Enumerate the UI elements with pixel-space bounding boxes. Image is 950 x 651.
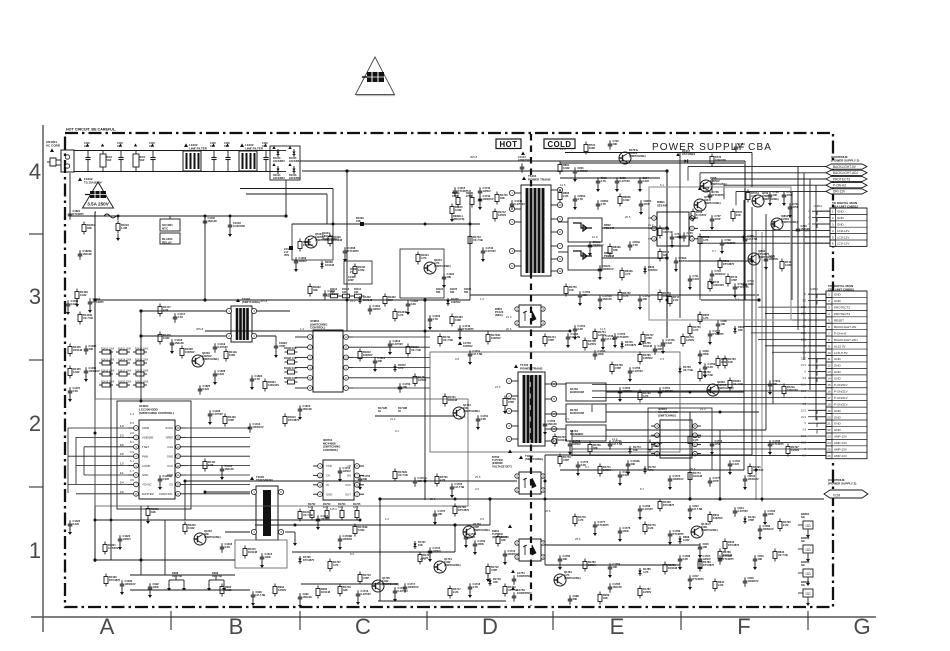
svg-text:1N4148: 1N4148	[248, 550, 258, 554]
svg-text:1/250V: 1/250V	[686, 338, 694, 342]
resistor R706	[692, 209, 694, 212]
junction	[544, 480, 547, 483]
capacitor C1013 below divider	[521, 151, 525, 155]
resistor R810b	[609, 244, 611, 247]
wire to CN8812 pin	[817, 210, 830, 212]
pin stub wire	[812, 210, 830, 212]
svg-text:1/250V: 1/250V	[123, 537, 131, 541]
junction	[94, 432, 97, 435]
svg-text:KTC3875: KTC3875	[598, 523, 610, 527]
wire vertical x700 cold	[699, 237, 701, 300]
resistor R1001	[135, 151, 137, 155]
capacitor C1766	[544, 420, 546, 424]
capacitor C1754	[574, 325, 576, 329]
svg-text:1N4148: 1N4148	[613, 585, 623, 589]
svg-text:100/50V: 100/50V	[303, 243, 313, 247]
svg-text:10K: 10K	[721, 322, 726, 326]
capacitor C1316	[221, 543, 223, 547]
junction	[424, 480, 427, 483]
resistor R1321	[104, 542, 106, 545]
rectifier block D803 (bottom)	[568, 246, 602, 270]
svg-text:1.4: 1.4	[130, 412, 134, 416]
svg-text:33K: 33K	[378, 359, 383, 363]
wire vertical x572 amp rail	[571, 430, 573, 456]
junction	[454, 498, 457, 501]
svg-text:10K: 10K	[447, 275, 452, 279]
wire to CN8801 pin	[572, 448, 826, 450]
wire to CN8812 pin	[700, 236, 830, 238]
wire: vertical x205	[204, 216, 206, 300]
svg-text:100/50V: 100/50V	[769, 257, 779, 261]
resistor R1812	[359, 349, 361, 352]
svg-text:GND: GND	[834, 357, 842, 361]
svg-text:2.2K: 2.2K	[648, 526, 654, 530]
svg-text:0.022: 0.022	[733, 462, 740, 466]
svg-text:33K: 33K	[363, 477, 368, 481]
bottom ruler tick	[426, 611, 428, 630]
svg-text:100/50V: 100/50V	[648, 268, 658, 272]
capacitor C1710	[394, 587, 396, 591]
svg-text:(R5ALTD): (R5ALTD)	[453, 218, 465, 221]
capacitor C1768	[569, 440, 571, 444]
junction	[345, 169, 348, 172]
warning triangle with fuse symbol	[356, 57, 395, 95]
resistor R1740	[496, 192, 498, 195]
transistor Q1802	[707, 384, 719, 396]
svg-text:20: 20	[827, 415, 831, 419]
capacitor C1702	[359, 475, 361, 479]
pin stub wire	[808, 325, 826, 327]
resistor grid R1410	[99, 362, 102, 364]
svg-text:R1412 100K: R1412 100K	[135, 347, 149, 350]
resistor R1813	[407, 344, 409, 347]
transistor Q707	[694, 199, 706, 211]
svg-text:C: C	[355, 614, 371, 639]
pin stub wire	[808, 454, 826, 456]
svg-text:4.7K: 4.7K	[398, 366, 404, 370]
resistor R1409	[224, 414, 226, 417]
capacitor C1102	[204, 217, 206, 221]
resistor R1750	[565, 284, 567, 287]
wire bus vertical 5	[791, 191, 793, 300]
pin stub wire	[812, 242, 830, 244]
resistor R1419	[225, 349, 227, 352]
resistor R1803	[729, 378, 731, 381]
svg-text:0.022/250: 0.022/250	[233, 224, 245, 228]
resistor R993	[221, 584, 223, 587]
svg-text:4.7K: 4.7K	[601, 202, 607, 206]
resistor R708	[699, 234, 701, 237]
svg-text:21: 21	[827, 422, 831, 426]
capacitor C1406	[85, 367, 87, 371]
svg-text:12.9: 12.9	[592, 235, 598, 239]
connector flag VCM	[824, 490, 868, 498]
svg-text:OUT: OUT	[345, 492, 351, 496]
svg-text:UZ-7.5B: UZ-7.5B	[455, 485, 465, 489]
wire from IC1001 pin right	[186, 474, 250, 476]
svg-text:1N4148: 1N4148	[448, 398, 458, 402]
capacitor C1742	[479, 195, 481, 199]
capacitor C1303	[429, 315, 431, 319]
svg-text:8.3: 8.3	[130, 440, 134, 444]
svg-text:2.2K: 2.2K	[481, 417, 487, 421]
wire from X1801 pin right	[353, 387, 430, 389]
resistor R813	[774, 549, 776, 552]
svg-text:AMP-13V: AMP-13V	[834, 448, 847, 452]
capacitor C1408	[209, 410, 211, 414]
junction	[140, 400, 143, 403]
svg-text:GND: GND	[167, 454, 173, 458]
rectifier block D1702 (mid)	[566, 383, 606, 401]
resistor R991	[274, 584, 276, 587]
svg-text:1/25: 1/25	[117, 145, 122, 148]
resistor R992	[317, 586, 319, 589]
junction	[294, 524, 297, 527]
wire bus vertical 9	[751, 207, 753, 455]
svg-text:BACKLIGHT-5V: BACKLIGHT-5V	[833, 165, 857, 169]
capacitor C1410	[249, 423, 251, 427]
resistor R1792	[689, 434, 691, 437]
wire: rectified + rail	[300, 160, 745, 162]
svg-text:GND: GND	[834, 370, 842, 374]
resistor R1774	[689, 470, 691, 473]
svg-text:1000/10V: 1000/10V	[483, 197, 494, 201]
capacitor C705	[744, 235, 746, 239]
svg-text:1000/10V: 1000/10V	[89, 369, 100, 373]
svg-text:0.47/50V: 0.47/50V	[738, 509, 749, 513]
svg-text:GND: GND	[834, 409, 842, 413]
resistor R1703B	[354, 524, 356, 527]
svg-text:RELAY: RELAY	[162, 240, 172, 244]
svg-text:KTC3875: KTC3875	[723, 557, 735, 561]
wire vertical x455	[454, 525, 456, 552]
svg-text:GND: GND	[834, 415, 842, 419]
svg-text:470P: 470P	[793, 205, 799, 209]
resistor R1408	[76, 289, 78, 292]
resistor R1767	[554, 434, 556, 437]
wire y412 cold	[606, 411, 759, 413]
capacitor C1718	[469, 583, 471, 587]
svg-text:RESET: RESET	[834, 319, 844, 323]
svg-text:KTC3875: KTC3875	[288, 418, 300, 422]
svg-text:0.5: 0.5	[480, 517, 484, 521]
svg-text:4.7K: 4.7K	[398, 313, 404, 317]
svg-text:UZ-7.5B: UZ-7.5B	[613, 442, 623, 446]
capacitor C1787	[699, 555, 701, 559]
resistor R1316	[184, 522, 186, 525]
pin stub wire	[812, 217, 830, 219]
diode D1812	[393, 364, 396, 372]
svg-text:GD: GD	[805, 572, 811, 576]
svg-text:13.2: 13.2	[612, 437, 618, 441]
resistor R1789	[699, 559, 701, 562]
svg-text:100K: 100K	[598, 352, 604, 356]
svg-text:0.47/50V: 0.47/50V	[633, 369, 644, 373]
resistor R1824	[264, 379, 266, 382]
pin stub wire	[808, 429, 826, 431]
resistor R707	[732, 209, 734, 212]
resistor R1417	[159, 304, 161, 307]
wire vertical x111	[110, 350, 112, 560]
wire from IC1001 pin left	[76, 493, 128, 495]
wire to CN8801 pin	[817, 358, 826, 360]
svg-text:33K: 33K	[603, 596, 608, 600]
svg-text:20.6: 20.6	[506, 327, 512, 331]
resistor R1302	[384, 294, 386, 297]
resistor grid R1422	[133, 373, 136, 375]
rectifier block D1704	[566, 425, 606, 441]
capacitor C1745	[567, 333, 569, 337]
pin stub wire	[808, 351, 826, 353]
wire y590 bottom-left	[130, 589, 250, 591]
svg-text:1/250V: 1/250V	[343, 469, 351, 473]
resistor R704	[659, 249, 661, 252]
wire from IC1001 pin right	[186, 493, 250, 495]
capacitor C1711	[469, 350, 471, 354]
capacitor C1704b	[414, 477, 416, 481]
svg-text:470P: 470P	[715, 217, 721, 221]
junction	[453, 523, 456, 526]
wire to CN8801 pin	[572, 435, 826, 437]
capacitor C1747b	[662, 339, 664, 343]
svg-text:1N4148: 1N4148	[208, 219, 218, 223]
capacitor C1773	[669, 475, 671, 479]
capacitor C815	[699, 543, 701, 547]
warning C1748	[458, 341, 462, 345]
wire: y295 cold crossing	[470, 294, 759, 296]
wire from IC1001 pin left	[68, 483, 128, 485]
svg-text:4.7K: 4.7K	[473, 585, 479, 589]
svg-text:1/250V: 1/250V	[278, 588, 286, 592]
svg-text:33K: 33K	[151, 510, 156, 514]
transistor Q1701	[453, 407, 465, 419]
capacitor C1756	[654, 345, 656, 349]
svg-text:100K: 100K	[748, 282, 754, 286]
svg-text:(SWITCHING): (SWITCHING)	[204, 535, 221, 539]
svg-text:10K: 10K	[758, 557, 763, 561]
svg-text:PROTECT2: PROTECT2	[834, 306, 850, 310]
svg-text:VCC: VCC	[167, 464, 173, 468]
wire horizontal feed y237	[700, 236, 744, 238]
bottom ruler tick	[170, 611, 172, 630]
sub-circuit box Q1004	[400, 249, 444, 298]
resistor R1802	[309, 284, 311, 287]
svg-text:1N4148: 1N4148	[83, 252, 93, 256]
svg-text:1.5: 1.5	[120, 463, 124, 466]
svg-text:470P: 470P	[228, 418, 234, 422]
filter rail bottom wire	[74, 171, 274, 173]
capacitor C713	[711, 270, 713, 274]
junction	[757, 298, 760, 301]
svg-text:(SWITCHING CONTROL): (SWITCHING CONTROL)	[139, 411, 174, 415]
svg-text:4.7K: 4.7K	[703, 316, 709, 320]
svg-text:33K: 33K	[658, 347, 663, 351]
resistor R717	[669, 294, 671, 297]
wire to CN8801 pin	[751, 332, 826, 334]
resistor R1705	[436, 474, 438, 477]
connector flag P-ON-H2	[826, 183, 867, 188]
resistor R713	[727, 274, 729, 277]
cap C1005	[227, 151, 229, 158]
wire x690 vertical bottom	[689, 412, 691, 499]
svg-text:2.2K: 2.2K	[411, 302, 417, 306]
svg-text:0.47/50V: 0.47/50V	[578, 169, 589, 173]
svg-text:33K: 33K	[738, 328, 743, 332]
junction	[719, 411, 722, 414]
diode D1305	[446, 298, 449, 306]
svg-text:0.1: 0.1	[395, 429, 399, 433]
pin stub wire	[808, 390, 826, 392]
svg-text:10K: 10K	[633, 448, 638, 452]
svg-text:P-ON-H2: P-ON-H2	[833, 184, 846, 188]
svg-text:R1418 100K: R1418 100K	[135, 369, 149, 372]
svg-text:33K: 33K	[87, 226, 92, 230]
junction	[139, 558, 142, 561]
svg-text:GND: GND	[834, 293, 842, 297]
resistor R1790	[779, 519, 781, 522]
svg-text:GND: GND	[837, 210, 845, 214]
wire vertical x380	[379, 499, 381, 601]
resistor R1744	[544, 334, 546, 337]
resistor R1702b	[394, 469, 396, 472]
svg-text:P-ON/21V: P-ON/21V	[834, 396, 848, 400]
wire from IC1001 pin left	[76, 436, 128, 438]
capacitor C1755	[614, 333, 616, 337]
junction	[488, 497, 491, 500]
svg-text:(SWITCHING): (SWITCHING)	[704, 201, 721, 205]
wire vertical x165 bottom	[164, 520, 166, 575]
svg-text:1000/10V: 1000/10V	[408, 585, 419, 589]
capacitor C714	[744, 280, 746, 284]
wire bus vertical 8	[743, 200, 745, 470]
svg-text:56K: 56K	[450, 291, 455, 294]
svg-text:1/250V: 1/250V	[643, 590, 651, 594]
svg-text:1/250V: 1/250V	[791, 448, 799, 452]
svg-text:(SWITCHING): (SWITCHING)	[463, 409, 480, 413]
capacitor C809	[699, 350, 701, 354]
capacitor C1771	[619, 471, 621, 475]
left ruler tick 1	[29, 233, 43, 235]
svg-text:305-8: 305-8	[470, 155, 478, 159]
svg-text:4: 4	[29, 159, 41, 184]
junction	[469, 223, 472, 226]
capacitor C1016	[229, 216, 231, 222]
wire vertical x141 lower	[140, 506, 142, 575]
wire: vertical x425 center	[424, 300, 426, 500]
svg-text:0.47/50V: 0.47/50V	[393, 342, 404, 346]
svg-text:25.6: 25.6	[575, 537, 581, 541]
svg-text:CONTROL): CONTROL)	[310, 326, 325, 330]
svg-text:R1421 100K: R1421 100K	[135, 380, 149, 383]
svg-text:100K: 100K	[589, 146, 595, 150]
svg-text:KTC3875: KTC3875	[773, 442, 785, 446]
connector flag PROTECT3	[826, 176, 867, 181]
svg-text:1.7: 1.7	[130, 469, 134, 473]
wire: vertical x185	[184, 481, 186, 520]
svg-text:3.6: 3.6	[120, 444, 124, 447]
wire to CN8801 pin	[817, 429, 826, 431]
svg-text:115 C: 115 C	[330, 507, 337, 511]
svg-text:10: 10	[558, 203, 562, 207]
border frame: left ruler line	[42, 125, 44, 632]
svg-text:POWER SUPPLY CBA: POWER SUPPLY CBA	[652, 142, 772, 153]
resistor R812	[724, 539, 726, 542]
svg-text:A: A	[100, 614, 115, 639]
diode D806	[733, 326, 736, 334]
bottom ruler tick	[680, 611, 682, 630]
capacitor C1770	[577, 461, 579, 465]
junction	[718, 497, 721, 500]
svg-text:100K: 100K	[478, 542, 484, 546]
pin stub wire	[808, 293, 826, 295]
svg-text:33K: 33K	[343, 588, 348, 592]
cap C1004	[213, 151, 215, 158]
svg-text:PWRCNTL: PWRCNTL	[159, 492, 173, 496]
capacitor C1793	[711, 440, 713, 444]
svg-text:MASTER: MASTER	[142, 492, 154, 496]
svg-text:33K: 33K	[388, 298, 393, 302]
capacitor C1757	[709, 330, 711, 334]
board outline dashed rectangle	[65, 133, 833, 607]
sub-circuit rail top cold	[565, 152, 752, 154]
svg-text:E: E	[610, 614, 625, 639]
svg-text:R1823 10K: R1823 10K	[284, 377, 297, 380]
svg-text:SG: SG	[801, 539, 805, 543]
resistor R1799	[659, 499, 661, 502]
svg-text:100/50V: 100/50V	[451, 300, 461, 304]
wire T1003 right down	[285, 531, 295, 533]
junction	[761, 498, 764, 501]
svg-text:1/250V: 1/250V	[483, 189, 491, 193]
svg-text:2.2K: 2.2K	[453, 590, 459, 594]
svg-text:305-8: 305-8	[196, 327, 204, 331]
transformer T1801	[519, 455, 523, 459]
svg-text:33K: 33K	[89, 347, 94, 351]
wire y430 cold	[606, 429, 766, 431]
capacitor C722	[609, 140, 611, 144]
svg-text:1N4148: 1N4148	[175, 341, 185, 345]
wire from T1001 pins to rectifiers	[558, 221, 568, 223]
left ruler tick 2	[29, 359, 43, 361]
svg-text:LCD-12V: LCD-12V	[837, 235, 849, 239]
resistor R1754	[594, 329, 596, 332]
capacitor C810b	[589, 241, 591, 245]
svg-text:1N4148: 1N4148	[73, 348, 83, 352]
wire: long horizontal y520	[95, 519, 360, 521]
junction	[688, 497, 691, 500]
resistor R1015	[451, 204, 453, 207]
wire vertical x84 left of IC1001	[83, 447, 85, 475]
wire from IC1001 pin right	[186, 436, 250, 438]
svg-text:KTC3875: KTC3875	[618, 335, 630, 339]
resistor R1748	[504, 396, 506, 399]
wire bus vertical 7 (gray)	[761, 232, 763, 502]
svg-text:AMP-13V: AMP-13V	[834, 454, 847, 458]
svg-text:(REG): (REG)	[495, 313, 503, 317]
svg-text:P-ON/21V: P-ON/21V	[834, 402, 848, 406]
pin table CN8812	[830, 208, 867, 246]
resistor R1008	[299, 239, 301, 242]
svg-text:GND: GND	[834, 377, 842, 381]
resistor R1719	[504, 584, 506, 587]
svg-text:0.47/50V: 0.47/50V	[108, 546, 119, 550]
wire from IC1001 pin left	[84, 446, 128, 448]
svg-text:0.022: 0.022	[188, 526, 195, 530]
capacitor C1751b	[599, 295, 601, 299]
svg-text:12: 12	[344, 335, 348, 339]
svg-text:UZ-7.5B: UZ-7.5B	[683, 368, 693, 372]
svg-text:0.022: 0.022	[563, 166, 570, 170]
